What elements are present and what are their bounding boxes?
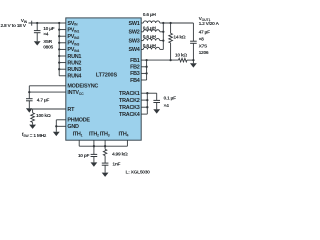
- inductor L1 0.6uH: [143, 21, 159, 23]
- svg-text:RUN2: RUN2: [67, 60, 81, 66]
- junction dot rail SW3: [162, 39, 164, 41]
- wire pin ITH1 stub: [78, 140, 80, 146]
- junction dot FB2: [145, 66, 147, 68]
- inductor L4 0.6uH: [143, 47, 159, 49]
- wire MODE to INTVCC vertical: [28, 86, 30, 92]
- label COUT size 1206: [199, 50, 209, 56]
- svg-text:10 pF: 10 pF: [78, 153, 90, 159]
- wire RT resistor lower lead: [32, 122, 34, 124]
- svg-text:GND: GND: [67, 124, 79, 130]
- junction dot TRACK3: [146, 106, 148, 108]
- svg-text:L: XGL5030: L: XGL5030: [126, 170, 151, 176]
- label pin RT: [67, 107, 75, 113]
- label C5 count x4: [164, 103, 170, 109]
- wire FB to divider: [147, 59, 179, 61]
- label pin RUN2: [67, 60, 81, 66]
- op IC body U1 LT7200S: [66, 18, 141, 140]
- resistor R3 4.99k: [103, 149, 106, 155]
- label pin RUN1: [67, 54, 81, 60]
- ground 4.7uF cap: [26, 108, 33, 112]
- label COUT count x8: [199, 37, 205, 43]
- wire pin PVIN3 stub: [59, 42, 66, 44]
- ground 10pF cap: [91, 162, 98, 166]
- wire pin RUN3 stub: [59, 68, 66, 70]
- node VIN input terminal tick: [31, 21, 33, 26]
- wire pin RUN1 stub: [59, 55, 66, 57]
- junction dot rail SW2: [162, 31, 164, 33]
- svg-text:10 µF: 10 µF: [43, 26, 54, 32]
- label pin PVIN4: [67, 47, 79, 53]
- junction dot PHMODE-GND: [55, 125, 57, 127]
- junction dot PVIN4 on VIN rail: [58, 48, 60, 50]
- ground PHMODE-GND: [53, 132, 60, 136]
- label pin PVIN3: [67, 41, 79, 47]
- label CIN size 0805: [43, 45, 53, 51]
- svg-text:PHMODE: PHMODE: [67, 118, 90, 124]
- label COUT value 47uF: [199, 30, 210, 36]
- label pin TRACK2: [119, 98, 140, 104]
- label pin SW1: [129, 21, 140, 27]
- wire 4.99k to 1nF lead: [104, 156, 106, 164]
- svg-text:0.6 µH: 0.6 µH: [143, 43, 157, 49]
- label L1 value 0.6uH: [143, 12, 157, 18]
- junction dot RUN3 on VIN rail: [58, 68, 60, 70]
- label pin INTVCC: [67, 90, 84, 96]
- label pin RUN3: [67, 67, 81, 73]
- label C2 value 4.7uF: [37, 97, 50, 103]
- label pin MODE: [67, 84, 98, 90]
- label C5 value 0.1uF: [164, 96, 177, 102]
- svg-text:SW4: SW4: [129, 47, 140, 53]
- label R2 value 10k: [175, 53, 187, 59]
- wire pin TRACK4 stub: [141, 113, 147, 115]
- junction dot PVIN2 on VIN rail: [58, 35, 60, 37]
- svg-text:0.6 µH: 0.6 µH: [143, 26, 157, 32]
- svg-text:4.99 kΩ: 4.99 kΩ: [112, 152, 128, 158]
- wire L3 to output rail: [160, 40, 164, 42]
- label pin SW3: [129, 38, 140, 44]
- junction dot INTVCC cap tap: [28, 91, 30, 93]
- capacitor C4 lower lead: [104, 165, 106, 172]
- wire pin TRACK3 stub: [141, 106, 147, 108]
- label pin FB2: [130, 65, 140, 71]
- capacitor COUT lower lead: [192, 43, 194, 60]
- wire INTVCC: [29, 91, 66, 93]
- resistor RT 100k: [31, 113, 35, 123]
- capacitor C5 0.1uF plates: [153, 100, 160, 102]
- wire pin ITH4 stub: [126, 140, 128, 146]
- capacitor C3 lower lead: [93, 157, 95, 163]
- capacitor C4 1nF plates: [102, 163, 109, 165]
- capacitor C2 lower lead: [28, 101, 30, 109]
- label COUT dielectric X7S: [199, 44, 208, 50]
- svg-text:TRACK3: TRACK3: [119, 105, 140, 111]
- wire PHMODE to GND vertical: [55, 120, 57, 127]
- label VIN range: [1, 23, 27, 29]
- wire 4.99k upper lead: [104, 146, 106, 149]
- label U1 part number LT7200S: [96, 72, 118, 78]
- label pin TRACK1: [119, 91, 140, 97]
- junction dot FB node: [169, 59, 171, 61]
- wire pin FB4 stub: [141, 79, 146, 81]
- label pin PVIN1: [67, 27, 79, 33]
- wire GND pin: [56, 125, 66, 127]
- svg-text:RUN1: RUN1: [67, 54, 81, 60]
- junction dot RUN1 on VIN rail: [58, 55, 60, 57]
- wire pin ITH3 stub: [104, 140, 106, 146]
- label CIN count x4: [43, 32, 49, 38]
- wire ITH bus: [79, 145, 127, 147]
- svg-text:X7S: X7S: [199, 44, 208, 50]
- label L3 value 0.6uH: [143, 34, 157, 40]
- label CIN dielectric X5R: [43, 39, 52, 45]
- svg-text:×4: ×4: [43, 32, 49, 38]
- label VIN: [21, 18, 28, 24]
- capacitor C5 lower lead: [156, 103, 158, 110]
- label VOUT1 rating: [199, 21, 220, 27]
- label R1 value 14k: [173, 34, 185, 40]
- wire pin PVIN4 stub: [59, 48, 66, 50]
- node VIN vertical rail: [58, 23, 60, 76]
- wire pin SW3 stub: [141, 40, 143, 42]
- junction dot PVIN3 on VIN rail: [58, 42, 60, 44]
- wire pin TRACK2 stub: [141, 99, 147, 101]
- junction dot 14k top: [169, 22, 171, 24]
- label pin FB1: [130, 58, 140, 64]
- junction dot FB3: [145, 72, 147, 74]
- label L2 value 0.6uH: [143, 26, 157, 32]
- svg-text:fSW = 1 MHz: fSW = 1 MHz: [22, 132, 47, 139]
- wire TRACK to cap: [147, 92, 156, 94]
- svg-text:14 kΩ: 14 kΩ: [173, 34, 185, 40]
- junction dot input cap tap: [36, 22, 38, 24]
- svg-text:SW3: SW3: [129, 38, 140, 44]
- junction dot output ground node: [192, 59, 194, 61]
- wire pin RUN2 stub: [59, 62, 66, 64]
- wire pin ITH2 stub: [93, 140, 95, 146]
- resistor R1 14k: [169, 33, 173, 43]
- node TRACK rail: [146, 93, 148, 114]
- label C4 value 1nF: [112, 162, 120, 168]
- svg-text:0.6 µH: 0.6 µH: [143, 12, 157, 18]
- wire MODE/SYNC: [29, 85, 66, 87]
- node FB rail: [146, 60, 148, 80]
- ground input cap: [34, 41, 41, 45]
- capacitor C5 0.1uF lead: [156, 93, 158, 100]
- svg-text:TRACK4: TRACK4: [119, 112, 140, 118]
- svg-text:SW2: SW2: [129, 30, 140, 36]
- wire RT down lead: [32, 109, 34, 113]
- svg-text:0.6 µH: 0.6 µH: [143, 34, 157, 40]
- label VOUT1: [199, 16, 211, 22]
- wire pin FB3 stub: [141, 72, 146, 74]
- svg-text:MODE/SYNC: MODE/SYNC: [67, 84, 98, 90]
- svg-text:1.2 V/20 A: 1.2 V/20 A: [199, 21, 220, 27]
- ground RT resistor: [29, 125, 36, 129]
- wire pin SW1 stub: [141, 22, 143, 24]
- wire pin SW4 stub: [141, 48, 143, 50]
- label pin FB4: [130, 78, 140, 84]
- wire RT: [33, 108, 66, 110]
- svg-text:0.1 µF: 0.1 µF: [164, 96, 177, 102]
- wire 14k upper lead: [170, 23, 172, 33]
- label pin GND: [67, 124, 79, 130]
- label pin ITH1: [73, 131, 83, 137]
- label R3 value 4.99k: [112, 152, 128, 158]
- capacitor C3 10pF lead: [93, 146, 95, 154]
- svg-text:47 µF: 47 µF: [199, 30, 210, 36]
- capacitor CIN lower lead: [36, 33, 38, 42]
- capacitor C2 4.7uF lead: [28, 92, 30, 99]
- svg-text:FB2: FB2: [130, 65, 140, 71]
- label pin SVIN: [67, 21, 78, 27]
- junction dot RUN2 on VIN rail: [58, 61, 60, 63]
- wire pin FB2 stub: [141, 66, 146, 68]
- wire 14k lower lead: [170, 43, 172, 60]
- svg-text:×4: ×4: [164, 103, 170, 109]
- junction dot ITH2 bus: [93, 145, 95, 147]
- capacitor C3 10pF plates: [91, 154, 98, 156]
- svg-text:FB1: FB1: [130, 58, 140, 64]
- svg-text:1206: 1206: [199, 50, 209, 56]
- capacitor CIN 10uF plates: [34, 31, 41, 33]
- wire pin PVIN1 stub: [59, 29, 66, 31]
- svg-text:RT: RT: [67, 107, 75, 113]
- svg-text:1nF: 1nF: [112, 162, 120, 168]
- label pin RUN4: [67, 74, 81, 80]
- svg-text:100 kΩ: 100 kΩ: [36, 113, 51, 119]
- inductor L2 0.6uH: [143, 30, 159, 32]
- svg-text:4.7 µF: 4.7 µF: [37, 97, 50, 103]
- node output rail: [162, 23, 164, 49]
- svg-text:FB4: FB4: [130, 78, 140, 84]
- wire L1 to output rail: [160, 22, 164, 24]
- wire PHMODE: [56, 119, 66, 121]
- svg-text:SW1: SW1: [129, 21, 140, 27]
- junction dot FB1: [145, 59, 147, 61]
- wire GND down lead: [55, 126, 57, 132]
- capacitor C2 4.7uF plates: [26, 99, 33, 101]
- label RT value 100k: [36, 113, 51, 119]
- label L4 value 0.6uH: [143, 43, 157, 49]
- capacitor COUT 47uF plates: [190, 41, 197, 43]
- label C3 value 10pF: [78, 153, 90, 159]
- junction dot SVIN on VIN rail: [58, 22, 60, 24]
- wire pin FB1 stub: [141, 59, 146, 61]
- label pin TRACK3: [119, 105, 140, 111]
- capacitor CIN 10uF lead: [36, 23, 38, 31]
- svg-text:X5R: X5R: [43, 39, 52, 45]
- svg-text:TRACK1: TRACK1: [119, 91, 140, 97]
- label pin PHMODE: [67, 118, 90, 124]
- label CIN value 10uF: [43, 26, 54, 32]
- svg-text:RUN3: RUN3: [67, 67, 81, 73]
- svg-text:10 kΩ: 10 kΩ: [175, 53, 187, 59]
- wire L2 to output rail: [160, 31, 164, 33]
- wire VIN input: [29, 22, 60, 24]
- wire pin PVIN2 stub: [59, 35, 66, 37]
- inductor L3 0.6uH: [143, 39, 159, 41]
- label pin ITH4: [118, 131, 128, 137]
- wire 10k to ground node: [187, 59, 193, 61]
- label pin FB3: [130, 71, 140, 77]
- svg-text:RUN4: RUN4: [67, 74, 81, 80]
- junction dot ITH3 bus: [104, 145, 106, 147]
- wire L4 to output rail: [160, 48, 164, 50]
- ground 0.1uF cap: [153, 109, 160, 113]
- resistor R2 10k: [179, 58, 188, 62]
- label pin SW4: [129, 47, 140, 53]
- wire pin RUN4 stub: [59, 75, 66, 77]
- junction dot rail SW1: [162, 22, 164, 24]
- wire ground node lead: [192, 60, 194, 63]
- junction dot TRACK2: [146, 99, 148, 101]
- junction dot PVIN1 on VIN rail: [58, 28, 60, 30]
- junction dot TRACK1: [146, 92, 148, 94]
- svg-text:×8: ×8: [199, 37, 205, 43]
- label pin TRACK4: [119, 112, 140, 118]
- svg-text:LT7200S: LT7200S: [96, 72, 118, 78]
- wire pin SVIN stub: [59, 22, 66, 24]
- ground 1nF cap: [102, 173, 109, 177]
- label pin ITH3: [100, 131, 110, 137]
- label pin SW2: [129, 30, 140, 36]
- svg-text:0805: 0805: [43, 45, 53, 51]
- label inductor type: [126, 170, 151, 176]
- label switching frequency: [22, 132, 47, 139]
- label pin PVIN2: [67, 34, 79, 40]
- wire pin TRACK1 stub: [141, 92, 147, 94]
- capacitor COUT 47uF lead: [192, 23, 194, 41]
- svg-text:TRACK2: TRACK2: [119, 98, 140, 104]
- ground output: [190, 63, 197, 67]
- wire pin SW2 stub: [141, 31, 143, 33]
- wire VOUT: [163, 22, 193, 24]
- svg-text:2.8 V to 18 V: 2.8 V to 18 V: [1, 23, 27, 29]
- label pin ITH2: [89, 131, 99, 137]
- svg-text:FB3: FB3: [130, 71, 140, 77]
